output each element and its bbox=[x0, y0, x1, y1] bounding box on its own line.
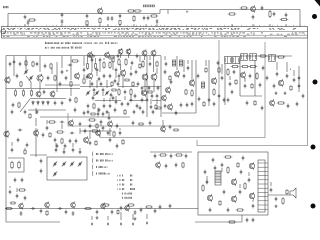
transistor T2 bbox=[251, 5, 256, 12]
wire link bbox=[109, 58, 111, 60]
capacitor C163 bbox=[302, 94, 305, 99]
capacitor C93 bbox=[185, 154, 188, 159]
resistor R4 bbox=[119, 20, 121, 26]
capacitor C167 bbox=[109, 138, 112, 143]
capacitor C102 bbox=[246, 218, 249, 223]
wire det drop bbox=[162, 120, 164, 126]
coil L1 bbox=[172, 60, 175, 66]
wire bottom rail bbox=[6, 221, 60, 223]
transistor T25 bbox=[241, 71, 246, 78]
transistor T8 bbox=[88, 51, 93, 58]
capacitor C155 bbox=[213, 102, 216, 107]
wire lower rail bbox=[28, 109, 66, 111]
capacitor C7 bbox=[111, 16, 114, 21]
capacitor C141 bbox=[146, 98, 149, 103]
wire gang drop bbox=[35, 128, 37, 157]
capacitor C64 bbox=[259, 83, 262, 88]
resistor R82 bbox=[205, 67, 207, 73]
capacitor C151 bbox=[229, 82, 232, 87]
capacitor C39 bbox=[134, 94, 137, 99]
transistor T26 bbox=[278, 79, 283, 87]
capacitor C4 bbox=[61, 19, 64, 24]
capacitor C94 bbox=[165, 164, 168, 169]
resistor R81 bbox=[169, 75, 171, 81]
wire link bbox=[144, 80, 146, 90]
capacitor C176 bbox=[248, 178, 251, 183]
resistor R22 bbox=[86, 62, 88, 70]
resistor R79 bbox=[132, 81, 134, 87]
capacitor C45 bbox=[139, 106, 142, 111]
wire det col x196 bbox=[195, 60, 197, 113]
capacitor C8 bbox=[119, 14, 122, 19]
capacitor C51 bbox=[117, 54, 120, 59]
ifcan IF2 bbox=[233, 57, 240, 64]
transistor T36 bbox=[231, 195, 236, 203]
transistor T39 bbox=[19, 203, 24, 210]
resistor R34 bbox=[83, 78, 85, 84]
wire link bbox=[144, 56, 146, 60]
resistor R77 bbox=[112, 57, 114, 63]
wire schematic top rail bbox=[6, 55, 161, 57]
resistor R76 bbox=[29, 113, 31, 119]
capacitor C159 bbox=[261, 106, 264, 111]
capacitor C164 bbox=[42, 133, 45, 138]
resistor R91 bbox=[95, 140, 97, 146]
resistor R32 bbox=[156, 61, 158, 67]
capacitor C82 bbox=[116, 124, 119, 129]
capacitor C186 bbox=[24, 196, 27, 201]
capacitor C203 bbox=[154, 209, 157, 214]
resistor R83 bbox=[235, 79, 237, 85]
capacitor C91 bbox=[154, 154, 157, 159]
capacitor C54 bbox=[233, 70, 236, 75]
capacitor C36 bbox=[124, 90, 127, 95]
resistor R97 bbox=[109, 56, 115, 58]
capacitor C175 bbox=[221, 163, 224, 168]
capacitor C125 bbox=[16, 74, 19, 79]
capacitor C182 bbox=[17, 138, 20, 143]
transistor T44 bbox=[161, 125, 166, 132]
coil L2 bbox=[179, 60, 182, 66]
diode D4 bbox=[47, 101, 50, 106]
wire link bbox=[153, 56, 155, 72]
wire link bbox=[96, 80, 98, 88]
resistor R60 bbox=[227, 166, 229, 174]
transistor T43 bbox=[125, 205, 130, 212]
capacitor C131 bbox=[115, 68, 118, 73]
wire link bbox=[122, 76, 124, 88]
wire stub B bbox=[45, 84, 80, 86]
resistor R106 bbox=[138, 123, 144, 125]
capacitor C180 bbox=[270, 188, 273, 193]
wire col x299 bbox=[298, 66, 300, 92]
gnd GN4 bbox=[96, 216, 99, 219]
capacitor C69 bbox=[287, 104, 290, 109]
gnd GN3 bbox=[275, 204, 278, 207]
resistor R96 bbox=[89, 55, 95, 57]
capacitor C147 bbox=[187, 66, 190, 71]
capacitor C200 bbox=[115, 100, 118, 105]
capacitor C193 bbox=[97, 112, 100, 117]
resistor R74 bbox=[54, 75, 56, 81]
label osc bbox=[66, 70, 68, 72]
capacitor C66 bbox=[273, 84, 276, 89]
gnd GN2 bbox=[284, 91, 287, 94]
capacitor C185 bbox=[16, 194, 19, 199]
stage box 1 outline bbox=[68, 40, 219, 126]
note text line 2 bbox=[45, 46, 81, 48]
varcap G2a bbox=[86, 90, 90, 95]
resistor R99 bbox=[147, 91, 153, 93]
capacitor C187 bbox=[96, 68, 99, 73]
capacitor C46 bbox=[98, 77, 101, 82]
capacitor C162 bbox=[296, 102, 299, 107]
capacitor C68 bbox=[298, 84, 301, 89]
power IC U1 bbox=[258, 160, 268, 212]
resistor R2 bbox=[86, 20, 88, 26]
transistor T42 bbox=[101, 203, 106, 210]
capacitor C188 bbox=[118, 74, 121, 79]
wire left drop to band bbox=[7, 14, 9, 27]
transistor T45 bbox=[96, 129, 101, 136]
capacitor C47 bbox=[87, 104, 90, 109]
capacitor C32 bbox=[109, 104, 112, 109]
wire left box bbox=[8, 158, 24, 172]
wire col x240 bbox=[239, 60, 241, 96]
capacitor C195 bbox=[108, 116, 111, 121]
varcap G1b bbox=[29, 75, 33, 80]
capacitor C27 bbox=[74, 108, 77, 113]
capacitor C70 bbox=[262, 66, 265, 71]
capacitor C2 bbox=[27, 20, 30, 25]
varcap G3e bbox=[53, 171, 57, 176]
resistor R87 bbox=[290, 85, 292, 91]
capacitor C58 bbox=[227, 98, 230, 103]
capacitor C137 bbox=[87, 110, 90, 115]
wire amp out bbox=[268, 194, 290, 196]
capacitor C165 bbox=[89, 124, 92, 129]
wire row 117 rail bbox=[40, 116, 130, 118]
capacitor C179 bbox=[252, 204, 255, 209]
capacitor C127 bbox=[11, 110, 14, 115]
capacitor C59 bbox=[170, 80, 173, 85]
resistor R100 bbox=[111, 89, 117, 91]
capacitor C86 bbox=[107, 131, 110, 136]
capacitor C154 bbox=[191, 102, 194, 107]
wire link bbox=[103, 58, 105, 60]
transistor T41 bbox=[71, 202, 76, 209]
wire link bbox=[106, 80, 108, 88]
wire top drops bbox=[25, 24, 286, 27]
page number text 8762 bbox=[3, 6, 8, 8]
transistor T23 bbox=[211, 77, 216, 85]
transistor T9 bbox=[88, 72, 93, 79]
resistor R47 bbox=[277, 102, 286, 104]
resistor R49 bbox=[18, 161, 20, 170]
resistor R59 bbox=[182, 162, 184, 168]
capacitor C184 bbox=[9, 190, 12, 195]
capacitor C205 bbox=[40, 209, 43, 214]
capacitor C92 bbox=[170, 154, 173, 159]
capacitor C108 bbox=[58, 207, 63, 210]
resistor R16 bbox=[71, 60, 80, 62]
wire col x26 bbox=[25, 56, 27, 68]
wire y131 link bbox=[80, 130, 112, 132]
capacitor C30 bbox=[109, 74, 112, 79]
gnd GN1 bbox=[275, 91, 278, 94]
wire link bbox=[95, 58, 97, 62]
speaker SP1 bbox=[290, 188, 296, 198]
page curl mark top-right corner bbox=[315, 0, 320, 7]
capacitor C3 bbox=[61, 13, 64, 18]
transistor T35 bbox=[231, 178, 236, 186]
capacitor C190 bbox=[86, 75, 89, 80]
resistor R31 bbox=[142, 60, 144, 68]
waveband legend block B bbox=[117, 175, 135, 199]
capacitor C88 bbox=[54, 138, 57, 143]
capacitor C74 bbox=[21, 178, 24, 183]
resistor R75 bbox=[20, 81, 22, 87]
wire stub x168 bbox=[167, 10, 169, 15]
capacitor C105 bbox=[242, 156, 245, 161]
capacitor C18 bbox=[61, 101, 64, 106]
capacitor C5 bbox=[86, 14, 89, 19]
transistor T18 bbox=[142, 89, 147, 96]
capacitor C28 bbox=[83, 68, 86, 73]
capacitor C72 bbox=[18, 129, 23, 132]
capacitor C80 bbox=[79, 122, 82, 127]
resistor R103 bbox=[117, 209, 119, 214]
capacitor C139 bbox=[137, 82, 140, 87]
resistor R68 bbox=[46, 210, 48, 216]
capacitor C79 bbox=[60, 121, 65, 124]
capacitor C110 bbox=[96, 210, 99, 215]
capacitor C98 bbox=[204, 170, 207, 175]
capacitor C115 bbox=[169, 204, 172, 209]
capacitor C56 bbox=[186, 103, 189, 108]
capacitor C196 bbox=[130, 98, 133, 103]
diode D1 bbox=[32, 101, 35, 106]
capacitor C120 bbox=[146, 222, 148, 225]
capacitor C106 bbox=[20, 211, 23, 216]
wire right drop to band bbox=[299, 10, 301, 27]
wire col x255 bbox=[254, 60, 256, 96]
label det bbox=[289, 69, 292, 70]
capacitor C204 bbox=[65, 210, 68, 215]
capacitor C9 bbox=[143, 16, 146, 21]
capacitor C73 bbox=[14, 178, 17, 183]
capacitor C61 bbox=[175, 111, 178, 116]
capacitor C132 bbox=[91, 82, 94, 87]
transistor T19 bbox=[175, 70, 180, 77]
capacitor C62 bbox=[165, 62, 168, 67]
resistor R15 bbox=[30, 89, 32, 96]
resistor R86 bbox=[254, 100, 256, 106]
capacitor C63 bbox=[249, 74, 252, 79]
capacitor C157 bbox=[244, 84, 247, 89]
resistor R55 bbox=[113, 131, 115, 137]
resistor R12 bbox=[280, 18, 289, 20]
capacitor C112 bbox=[120, 206, 123, 211]
capacitor C201 bbox=[110, 93, 113, 98]
resistor R33 bbox=[155, 104, 157, 110]
capacitor C128 bbox=[36, 110, 39, 115]
varcap G2b bbox=[95, 90, 99, 95]
transistor T21 bbox=[162, 95, 167, 102]
capacitor C12 bbox=[252, 15, 255, 20]
wire col x40 bbox=[39, 56, 41, 72]
resistor R52 bbox=[88, 119, 97, 121]
capacitor C136 bbox=[112, 96, 115, 101]
capacitor C81 bbox=[100, 120, 103, 125]
resistor R37 bbox=[213, 88, 215, 96]
transistor T32 bbox=[108, 120, 113, 127]
capacitor C16 bbox=[13, 60, 16, 65]
transistor T37 bbox=[249, 162, 254, 170]
capacitor C207 bbox=[132, 121, 135, 126]
wire rail fm top bbox=[240, 55, 292, 57]
capacitor C117 bbox=[107, 223, 109, 226]
resistor R88 bbox=[49, 132, 51, 138]
capacitor C135 bbox=[92, 96, 95, 101]
resistor R65 bbox=[228, 221, 237, 223]
wire link bbox=[109, 98, 111, 102]
resistor R38 bbox=[227, 68, 229, 76]
capacitor C177 bbox=[206, 180, 209, 185]
resistor R30 bbox=[124, 109, 126, 115]
waveband legend block A bbox=[92, 152, 112, 176]
wire gang link bbox=[26, 76, 31, 88]
resistor R92 bbox=[237, 162, 239, 168]
wire mid rail B bbox=[80, 86, 161, 88]
outer frame right bbox=[197, 38, 308, 146]
wire amp stub bbox=[241, 215, 243, 222]
resistor R85 bbox=[251, 83, 253, 89]
transistor T12 bbox=[126, 48, 131, 55]
capacitor C129 bbox=[91, 58, 94, 63]
ifcan IF4 bbox=[250, 54, 257, 61]
transistor T14 bbox=[142, 49, 147, 56]
resistor R90 bbox=[122, 139, 124, 145]
capacitor C89 bbox=[69, 139, 72, 144]
resistor R20 bbox=[18, 102, 20, 108]
capacitor C118 bbox=[120, 223, 122, 226]
capacitor C11 bbox=[156, 19, 159, 24]
capacitor C126 bbox=[43, 90, 46, 95]
transistor T10 bbox=[105, 51, 110, 58]
capacitor C29 bbox=[103, 74, 106, 79]
capacitor C109 bbox=[72, 211, 75, 216]
wire link bbox=[128, 54, 130, 58]
resistor R35 bbox=[93, 103, 95, 109]
capacitor C6 bbox=[107, 16, 110, 21]
capacitor C34 bbox=[131, 61, 134, 66]
resistor R57 bbox=[159, 154, 168, 156]
capacitor C156 bbox=[218, 94, 221, 99]
capacitor C20 bbox=[19, 62, 22, 67]
capacitor C161 bbox=[286, 74, 289, 79]
wire lead segments bbox=[10, 56, 294, 202]
wire link bbox=[103, 98, 105, 102]
resistor R40 bbox=[218, 67, 220, 73]
capacitor C140 bbox=[141, 98, 144, 103]
capacitor C57 bbox=[223, 98, 226, 103]
transistor T11 bbox=[118, 48, 123, 55]
registration dot 4 bbox=[311, 204, 316, 209]
title text DIAGRAM bbox=[143, 5, 155, 8]
transistor T34 bbox=[207, 194, 212, 202]
capacitor C90 bbox=[75, 139, 78, 144]
transistor T24 bbox=[168, 103, 173, 110]
wire micro leads bbox=[92, 58, 142, 116]
capacitor C1 bbox=[24, 15, 27, 20]
resistor R45 bbox=[249, 65, 258, 67]
capacitor C171 bbox=[72, 148, 75, 153]
resistor R1 bbox=[28, 19, 37, 21]
resistor R80 bbox=[139, 63, 141, 69]
resistor R94 bbox=[286, 189, 288, 195]
resistor R95 bbox=[24, 149, 26, 155]
capacitor C25 bbox=[24, 110, 27, 115]
capacitor C197 bbox=[133, 110, 136, 115]
capacitor C121 bbox=[9, 62, 12, 67]
resistor R27 bbox=[125, 58, 127, 66]
capacitor C208 bbox=[149, 121, 152, 126]
capacitor C87 bbox=[119, 131, 122, 136]
resistor R63 bbox=[236, 209, 245, 211]
capacitor C116 bbox=[91, 223, 93, 226]
wire col x14 bbox=[13, 56, 15, 68]
wire top bus right bbox=[160, 9, 300, 11]
capacitor C191 bbox=[93, 88, 96, 93]
resistor R69 bbox=[84, 207, 92, 209]
capacitor C146 bbox=[183, 74, 186, 79]
resistor R56 bbox=[61, 138, 63, 144]
ifcan IF3 bbox=[241, 54, 248, 61]
capacitor C160 bbox=[276, 72, 279, 77]
wire stub A bbox=[56, 62, 58, 92]
wire top bus link bbox=[159, 10, 161, 14]
capacitor C107 bbox=[31, 207, 36, 210]
capacitor C85 bbox=[46, 126, 49, 131]
resistor R5 bbox=[127, 10, 136, 12]
capacitor C26 bbox=[69, 98, 72, 103]
resistor R78 bbox=[111, 81, 113, 87]
wire col x71 bbox=[70, 56, 72, 80]
capacitor C170 bbox=[63, 150, 66, 155]
resistor R14 bbox=[22, 89, 24, 96]
resistor R6 bbox=[133, 10, 142, 12]
ifcan IF5 bbox=[269, 55, 276, 62]
capacitor C168 bbox=[116, 144, 119, 149]
resistor R104 bbox=[10, 202, 16, 204]
transistor T16 bbox=[142, 73, 148, 81]
resistor R48 bbox=[11, 161, 13, 170]
capacitor C142 bbox=[135, 70, 138, 75]
registration dot 3 bbox=[311, 145, 316, 150]
capacitor C76 bbox=[64, 144, 67, 149]
capacitor C75 bbox=[56, 144, 59, 149]
wire fm col2 bbox=[191, 60, 193, 80]
capacitor C19 bbox=[68, 64, 73, 67]
resistor R62 bbox=[202, 184, 204, 192]
label supply bbox=[186, 11, 188, 13]
capacitor C198 bbox=[142, 110, 145, 115]
transistor T29 bbox=[34, 129, 39, 136]
capacitor C202 bbox=[140, 208, 143, 213]
resistor R66 bbox=[224, 156, 233, 158]
capacitor C181 bbox=[26, 143, 29, 148]
